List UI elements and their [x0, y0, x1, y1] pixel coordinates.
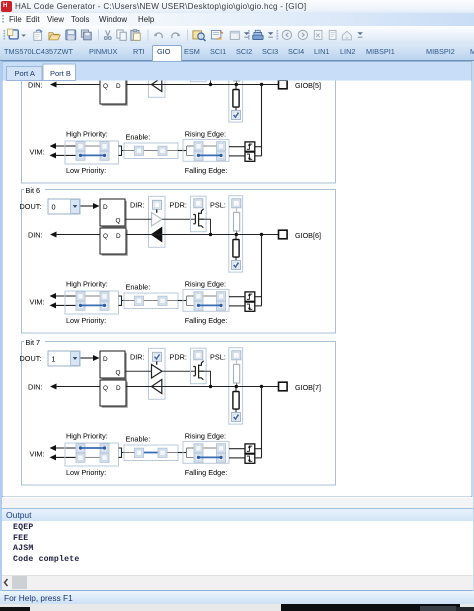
- svg-text:Falling Edge:: Falling Edge:: [185, 316, 228, 325]
- svg-text:High Priority:: High Priority:: [66, 129, 108, 138]
- open-drain MOSFET Q: [193, 59, 204, 78]
- svg-text:PSL:: PSL:: [210, 201, 226, 210]
- wire detectors to tap: [255, 146, 262, 148]
- svg-text:0: 0: [52, 202, 56, 211]
- wire enable to edge box: [178, 300, 187, 302]
- svg-text:Q: Q: [103, 233, 108, 240]
- selected priority path: [81, 447, 105, 449]
- wire edge tap vertical: [261, 85, 263, 156]
- priority group box: [65, 443, 119, 466]
- svg-text:GIOB[7]: GIOB[7]: [295, 383, 321, 392]
- DOUT combobox: [48, 351, 80, 366]
- junction FET: [209, 83, 212, 86]
- wire to falling edge detector: [229, 457, 245, 459]
- output pane text: [0, 521, 474, 575]
- DIR group (enable checkbox + buffers): [149, 196, 166, 247]
- wire to rising edge detector: [229, 448, 245, 450]
- svg-text:DIR:: DIR:: [130, 353, 145, 362]
- output flip-flop (D/Q): [102, 51, 127, 78]
- PDR group (open drain): [190, 348, 206, 384]
- selected priority path: [81, 304, 105, 306]
- status bar: [0, 590, 474, 605]
- svg-text:Q: Q: [116, 218, 121, 225]
- svg-text:PDR:: PDR:: [170, 353, 187, 362]
- PSL group (pull control): [229, 348, 243, 424]
- svg-text:High Priority:: High Priority:: [66, 279, 108, 288]
- pull-enable resistor (disabled): [236, 360, 238, 364]
- VIM low priority arrow: [55, 304, 76, 306]
- svg-text:Rising Edge:: Rising Edge:: [185, 279, 226, 288]
- VIM low priority arrow: [55, 154, 76, 156]
- wire FET to pad rail: [204, 69, 211, 84]
- open-drain MOSFET Q: [193, 209, 204, 228]
- DOUT combobox: [48, 49, 80, 64]
- svg-text:Bit 6: Bit 6: [26, 186, 41, 195]
- Bit 5 group box: [22, 40, 336, 184]
- main diagram panel: [0, 61, 474, 497]
- wire detectors to tap: [255, 296, 262, 298]
- priority merge bracket: [119, 448, 125, 457]
- selected edge path: [199, 456, 222, 458]
- svg-text:D: D: [116, 385, 121, 392]
- DIN arrow wire: [55, 84, 100, 86]
- priority wires: [85, 145, 100, 147]
- input buffer: [152, 78, 162, 92]
- wire edge tap vertical: [261, 235, 263, 306]
- pull-select checkbox (checked): [232, 111, 241, 120]
- svg-text:Enable:: Enable:: [126, 132, 151, 141]
- svg-text:DOUT:: DOUT:: [20, 354, 42, 363]
- svg-text:Q: Q: [103, 385, 108, 392]
- svg-text:GIOB[6]: GIOB[6]: [295, 231, 321, 240]
- PDR group (open drain): [190, 196, 206, 232]
- Bit 7 group box: [22, 342, 336, 486]
- svg-text:Falling Edge:: Falling Edge:: [185, 166, 228, 175]
- wire buffer to open-drain FET: [162, 68, 195, 70]
- svg-text:DIR:: DIR:: [130, 201, 145, 210]
- svg-text:GIOB[5]: GIOB[5]: [295, 81, 321, 90]
- VIM high priority arrow: [55, 447, 76, 449]
- junction FET: [209, 233, 212, 236]
- selected edge path: [199, 154, 222, 156]
- tab Port A: [7, 67, 43, 81]
- horizontal scrollbar: [0, 575, 474, 591]
- svg-text:Q: Q: [103, 83, 108, 90]
- wire buffer to open-drain FET: [162, 370, 195, 372]
- svg-text:D: D: [103, 356, 108, 363]
- input flip-flop (Q/D): [102, 80, 128, 106]
- svg-text:Bit 7: Bit 7: [26, 338, 41, 347]
- output buffer (disabled): [152, 213, 163, 227]
- priority wires: [85, 295, 100, 297]
- pull-enable resistor (disabled): [236, 58, 238, 62]
- svg-text:Rising Edge:: Rising Edge:: [185, 431, 226, 440]
- wire Q to output buffer: [125, 370, 152, 372]
- junction edge tap: [260, 233, 263, 236]
- svg-text:VIM:: VIM:: [30, 147, 45, 156]
- edge group box: [183, 441, 229, 463]
- svg-text:Enable:: Enable:: [126, 282, 151, 291]
- VIM high priority arrow: [55, 145, 76, 147]
- falling edge detector: [245, 454, 255, 463]
- rising edge detector: [245, 292, 255, 301]
- svg-text:DIN:: DIN:: [28, 81, 43, 90]
- svg-text:DOUT:: DOUT:: [20, 202, 42, 211]
- enable group box: [124, 293, 178, 309]
- wire Q to output buffer: [125, 218, 152, 220]
- I/O pad square: [279, 230, 288, 239]
- PSL group (pull control): [229, 196, 243, 272]
- wire Q to output buffer: [125, 68, 152, 70]
- VIM high priority arrow: [55, 295, 76, 297]
- DOUT combobox: [48, 199, 80, 214]
- output flip-flop (D/Q): [102, 353, 127, 380]
- rising edge detector: [245, 142, 255, 151]
- rising edge detector: [245, 444, 255, 453]
- svg-text:Rising Edge:: Rising Edge:: [185, 129, 226, 138]
- Bit 6 group box: [22, 190, 336, 334]
- selected priority path: [81, 154, 105, 156]
- PSL group (pull control): [229, 46, 243, 122]
- svg-text:Port B: Port B: [50, 69, 71, 78]
- pull resistor R (active): [235, 85, 237, 90]
- priority merge bracket: [119, 296, 125, 305]
- wire to rising edge detector: [229, 146, 245, 148]
- output pane header: [0, 508, 474, 522]
- junction pull: [235, 233, 238, 236]
- tab Port B (selected): [43, 64, 76, 81]
- DIR group (enable checkbox + buffers): [149, 46, 166, 97]
- wire DOUT to flip-flop with arrow: [81, 55, 95, 57]
- svg-text:Low Priority:: Low Priority:: [66, 468, 106, 477]
- svg-text:D: D: [116, 83, 121, 90]
- wire to falling edge detector: [229, 305, 245, 307]
- edge split wires: [187, 296, 195, 305]
- window edges: [0, 61, 2, 591]
- svg-text:Enable:: Enable:: [126, 434, 151, 443]
- junction edge tap: [260, 385, 263, 388]
- wire FET to pad rail: [204, 371, 211, 386]
- menu bar: [0, 13, 474, 26]
- wire enable to edge box: [178, 150, 187, 152]
- PDR group (open drain): [190, 46, 206, 81]
- pull resistor R (active): [235, 387, 237, 392]
- edge split wires: [187, 448, 195, 457]
- svg-text:Falling Edge:: Falling Edge:: [185, 468, 228, 477]
- pad rail wire: [126, 386, 278, 388]
- diagram area: [3, 81, 471, 497]
- svg-text:D: D: [116, 233, 121, 240]
- wire edge tap vertical: [261, 387, 263, 458]
- port tab strip background: [0, 61, 474, 497]
- edge group box: [183, 289, 229, 311]
- module tab row: [0, 44, 474, 61]
- input flip-flop (Q/D): [102, 230, 128, 256]
- edge split wires: [187, 146, 195, 155]
- svg-text:VIM:: VIM:: [30, 449, 45, 458]
- wire DOUT to flip-flop with arrow: [81, 205, 95, 207]
- input flip-flop (Q/D): [102, 382, 128, 408]
- svg-text:PSL:: PSL:: [210, 353, 226, 362]
- output buffer: [152, 63, 163, 77]
- svg-text:Low Priority:: Low Priority:: [66, 316, 106, 325]
- svg-text:PDR:: PDR:: [170, 201, 187, 210]
- selected edge path: [199, 304, 222, 306]
- title bar: [0, 0, 474, 13]
- input buffer: [152, 380, 162, 394]
- wire enable to edge box: [178, 452, 187, 454]
- I/O pad square: [279, 382, 288, 391]
- wire to rising edge detector: [229, 296, 245, 298]
- pull-select checkbox (checked): [232, 261, 241, 270]
- VIM low priority arrow: [55, 456, 76, 458]
- enable group box: [124, 445, 178, 461]
- pad rail wire: [126, 234, 278, 236]
- DIR group (enable checkbox + buffers): [149, 348, 166, 399]
- pull-select checkbox (checked): [232, 413, 241, 422]
- svg-text:DIN:: DIN:: [28, 231, 43, 240]
- svg-text:Q: Q: [116, 370, 121, 377]
- pad rail wire: [126, 84, 278, 86]
- I/O pad square: [279, 80, 288, 89]
- junction FET: [209, 385, 212, 388]
- toolbar: [0, 26, 474, 45]
- priority merge bracket: [119, 146, 125, 155]
- junction pull: [235, 385, 238, 388]
- output buffer: [152, 365, 163, 379]
- edge group box: [183, 139, 229, 161]
- wire DOUT to flip-flop with arrow: [81, 357, 95, 359]
- junction edge tap: [260, 83, 263, 86]
- svg-text:Low Priority:: Low Priority:: [66, 166, 106, 175]
- svg-text:D: D: [103, 204, 108, 211]
- enable group box: [124, 143, 178, 159]
- falling edge detector: [245, 152, 255, 161]
- bottom strip: [0, 604, 474, 611]
- wire FET to pad rail: [204, 219, 211, 234]
- svg-text:High Priority:: High Priority:: [66, 431, 108, 440]
- pull-enable resistor (disabled): [236, 208, 238, 212]
- DIN arrow wire: [55, 386, 100, 388]
- junction pull: [235, 83, 238, 86]
- svg-text:1: 1: [52, 354, 56, 363]
- open-drain MOSFET Q: [193, 361, 204, 380]
- splitter: [0, 498, 474, 508]
- input buffer (active): [152, 228, 162, 242]
- svg-text:DIN:: DIN:: [28, 383, 43, 392]
- main panel border: [2, 62, 472, 497]
- pull resistor R (active): [235, 235, 237, 240]
- svg-text:VIM:: VIM:: [30, 297, 45, 306]
- priority group box: [65, 291, 119, 314]
- wire detectors to tap: [255, 448, 262, 450]
- priority wires: [85, 447, 100, 449]
- falling edge detector: [245, 302, 255, 311]
- wire to falling edge detector: [229, 155, 245, 157]
- priority group box: [65, 141, 119, 164]
- DIN arrow wire: [55, 234, 100, 236]
- output flip-flop (D/Q): [102, 201, 127, 228]
- wire buffer to open-drain FET: [162, 218, 195, 220]
- svg-text:Port A: Port A: [15, 69, 35, 78]
